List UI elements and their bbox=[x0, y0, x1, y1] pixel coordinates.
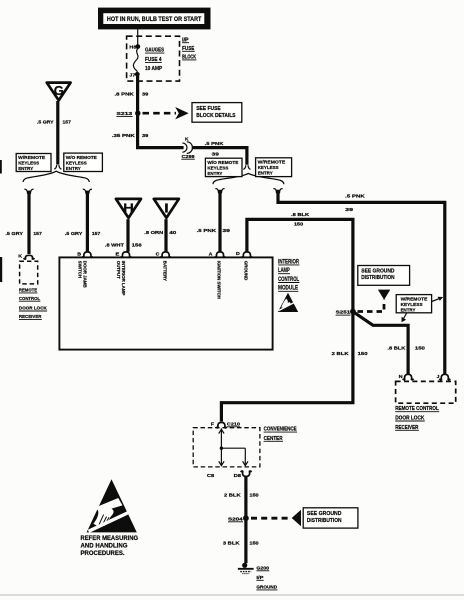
label .5 PNK 39 after C299 bbox=[205, 141, 224, 157]
svg-text:.5 GRY: .5 GRY bbox=[5, 231, 23, 237]
svg-text:157: 157 bbox=[33, 231, 42, 237]
svg-text:39: 39 bbox=[345, 207, 353, 213]
fuse terminal H8 bbox=[129, 44, 140, 50]
svg-text:40: 40 bbox=[169, 230, 176, 236]
wire H to pin E bbox=[126, 219, 129, 252]
wire split right branch to pin J bbox=[278, 190, 445, 374]
splice S213 bbox=[116, 111, 140, 118]
C8 D8 pin labels bbox=[207, 473, 241, 479]
dashed arrow S213 to see fuse box bbox=[143, 107, 189, 119]
pin J cup bbox=[437, 374, 451, 380]
label 3 BLK 150 bbox=[223, 541, 259, 547]
branch flare K bbox=[24, 189, 33, 194]
svg-text:.35 PNK: .35 PNK bbox=[112, 133, 136, 139]
svg-text:.5 GRY: .5 GRY bbox=[37, 119, 54, 125]
dashed box convenience center bbox=[193, 428, 260, 467]
svg-text:2 BLK: 2 BLK bbox=[224, 492, 241, 498]
svg-text:C8: C8 bbox=[207, 473, 215, 479]
pin K cup bbox=[18, 254, 34, 260]
svg-text:DISTRIBUTION: DISTRIBUTION bbox=[307, 518, 342, 524]
label .8 BLK 150 module ground run bbox=[291, 212, 310, 227]
svg-text:BATTERY: BATTERY bbox=[163, 261, 168, 281]
svg-text:HOT IN RUN, BULB TEST OR START: HOT IN RUN, BULB TEST OR START bbox=[107, 16, 201, 23]
svg-text:A: A bbox=[209, 252, 213, 258]
svg-text:BLOCK DETAILS: BLOCK DETAILS bbox=[196, 113, 236, 119]
svg-text:H8: H8 bbox=[129, 45, 137, 51]
svg-text:3 BLK: 3 BLK bbox=[223, 541, 240, 547]
svg-text:DISTRIBUTION: DISTRIBUTION bbox=[361, 275, 394, 281]
svg-text:W/REMOTE: W/REMOTE bbox=[18, 155, 46, 161]
arrowhead at D8 bbox=[243, 461, 248, 465]
svg-text:150: 150 bbox=[415, 345, 425, 351]
label .5 GRY 157 under G bbox=[37, 119, 71, 125]
svg-text:10 AMP: 10 AMP bbox=[145, 66, 162, 72]
svg-text:ENTRY: ENTRY bbox=[18, 166, 34, 172]
svg-text:D8: D8 bbox=[234, 473, 242, 479]
svg-text:KEYLESS: KEYLESS bbox=[401, 302, 424, 308]
W/O REMOTE KEYLESS ENTRY box (left pair) bbox=[64, 153, 103, 172]
svg-text:KEYLESS: KEYLESS bbox=[207, 165, 229, 171]
svg-text:.8 BLK: .8 BLK bbox=[387, 345, 406, 351]
svg-text:H: H bbox=[123, 201, 134, 216]
svg-text:150: 150 bbox=[249, 492, 259, 498]
svg-text:.5 GRY: .5 GRY bbox=[65, 231, 83, 237]
svg-text:SEE GROUND: SEE GROUND bbox=[307, 511, 342, 517]
label .8 ORN 40 bbox=[144, 230, 176, 236]
svg-text:J: J bbox=[437, 374, 440, 380]
dashed box left receiver bbox=[20, 261, 38, 284]
branch flare B bbox=[83, 189, 92, 194]
GAUGES FUSE 4 10 AMP labels bbox=[145, 48, 164, 73]
svg-text:.8 WHT: .8 WHT bbox=[105, 243, 124, 249]
REFER MEASURING AND HANDLING PROCEDURES text bbox=[81, 535, 139, 557]
G200 I/P GROUND label bbox=[256, 565, 277, 590]
banner HOT IN RUN bbox=[98, 8, 211, 30]
ESD warning symbol large bbox=[87, 479, 138, 532]
svg-text:J7: J7 bbox=[129, 72, 136, 78]
connector C299 bbox=[181, 137, 195, 160]
svg-text:K: K bbox=[18, 254, 22, 260]
wire J7 down to corner then right to C299 bbox=[138, 76, 184, 148]
svg-text:SEE GROUND: SEE GROUND bbox=[361, 268, 394, 274]
ground G200 bbox=[238, 563, 254, 574]
left split brace bbox=[23, 171, 89, 182]
ESD symbol small bbox=[278, 293, 298, 312]
label 2 BLK 150 left run bbox=[332, 351, 368, 357]
svg-text:INTERIOR: INTERIOR bbox=[278, 258, 299, 265]
wires inside convenience center bbox=[221, 428, 245, 465]
svg-text:157: 157 bbox=[63, 119, 72, 125]
wire 2 BLK S251 down left to C210 bbox=[221, 313, 353, 421]
svg-text:39: 39 bbox=[222, 228, 230, 234]
REMOTE CONTROL DOOR LOCK RECEIVER label right bbox=[395, 406, 439, 431]
svg-text:KEYLESS: KEYLESS bbox=[66, 160, 88, 166]
svg-text:150: 150 bbox=[294, 221, 304, 227]
label .8 BLK 150 to pin N bbox=[387, 345, 425, 351]
label .8 WHT 156 bbox=[105, 243, 142, 249]
pin A cup bbox=[209, 252, 226, 258]
svg-text:ENTRY: ENTRY bbox=[401, 308, 416, 314]
svg-text:39: 39 bbox=[142, 92, 149, 98]
svg-text:I: I bbox=[164, 201, 169, 216]
wire module pin D ground up right down to S251 bbox=[247, 219, 353, 310]
SEE GROUND DISTRIBUTION box upper bbox=[358, 266, 410, 286]
svg-text:OUTPUT: OUTPUT bbox=[116, 261, 121, 279]
label .35 PNK 39 bbox=[112, 133, 149, 139]
svg-text:KEYLESS: KEYLESS bbox=[18, 161, 40, 167]
arrowhead at C8 bbox=[219, 461, 224, 465]
svg-text:IGNITION SWITCH: IGNITION SWITCH bbox=[217, 261, 222, 299]
bottom hairline bbox=[0, 594, 464, 596]
svg-text:.5 PNK: .5 PNK bbox=[197, 228, 217, 234]
wire D8 to S204 to G200 bbox=[244, 476, 247, 563]
W/REMOTE KEYLESS ENTRY box (left pair) bbox=[16, 154, 51, 173]
wire split to pin A bbox=[218, 190, 221, 252]
CONVENIENCE CENTER label bbox=[264, 427, 298, 442]
svg-text:150: 150 bbox=[249, 541, 259, 547]
pin E label INTERIOR LAMP OUTPUT bbox=[116, 261, 126, 296]
svg-text:W/O REMOTE: W/O REMOTE bbox=[66, 155, 98, 161]
svg-text:C: C bbox=[156, 252, 160, 258]
fuse terminal J7 bbox=[129, 72, 139, 78]
wire C299 to right split bbox=[192, 148, 247, 165]
I/P FUSE BLOCK label bbox=[182, 37, 196, 60]
label .5 PNK 39 pin A branch bbox=[197, 228, 231, 234]
branch flare right of right split bbox=[273, 189, 282, 194]
W/O REMOTE KEYLESS ENTRY box (right pair) bbox=[205, 158, 242, 177]
svg-text:156: 156 bbox=[132, 243, 142, 249]
pin D label GROUND bbox=[243, 261, 248, 281]
svg-text:LAMP: LAMP bbox=[278, 267, 290, 274]
svg-text:ENTRY: ENTRY bbox=[66, 166, 82, 172]
svg-text:.8 PNK: .8 PNK bbox=[115, 92, 135, 98]
svg-text:.5 PNK: .5 PNK bbox=[205, 141, 224, 147]
svg-text:GROUND: GROUND bbox=[243, 261, 248, 281]
dashed box right receiver bbox=[396, 381, 456, 403]
connector C210 cup bbox=[211, 421, 240, 427]
svg-text:.5 PNK: .5 PNK bbox=[345, 194, 365, 200]
pin D cup bbox=[236, 251, 252, 257]
svg-text:KEYLESS: KEYLESS bbox=[258, 165, 280, 171]
svg-text:B: B bbox=[77, 252, 81, 258]
pin E cup bbox=[116, 252, 132, 258]
svg-text:K: K bbox=[185, 137, 189, 143]
triangle G bbox=[47, 83, 71, 101]
branch flare left of right split bbox=[215, 189, 224, 194]
svg-text:AND HANDLING: AND HANDLING bbox=[81, 542, 128, 549]
svg-text:SEE FUSE: SEE FUSE bbox=[196, 106, 221, 112]
svg-text:W/REMOTE: W/REMOTE bbox=[258, 160, 286, 166]
left edge artifact marks bbox=[0, 160, 2, 282]
svg-text:G: G bbox=[54, 83, 64, 98]
svg-text:PROCEDURES.: PROCEDURES. bbox=[81, 550, 125, 557]
pin B label DOOR JAMB SWITCH bbox=[77, 261, 87, 288]
label .8 PNK 39 bbox=[115, 92, 149, 98]
pin B cup bbox=[77, 252, 93, 258]
svg-text:150: 150 bbox=[358, 351, 368, 357]
svg-text:CONTROL: CONTROL bbox=[278, 276, 299, 283]
wire left split to pin K bbox=[27, 191, 30, 254]
right split wire-end flare bbox=[243, 165, 250, 169]
label .5 GRY 157 B branch bbox=[65, 231, 101, 237]
svg-text:W/O REMOTE: W/O REMOTE bbox=[207, 160, 239, 166]
triangle H bbox=[116, 199, 141, 218]
SEE GROUND DISTRIBUTION box lower bbox=[303, 508, 358, 528]
arrow from box to black wire bbox=[402, 313, 407, 322]
pin C label BATTERY bbox=[163, 261, 168, 281]
svg-text:.8 BLK: .8 BLK bbox=[291, 212, 310, 218]
right split brace bbox=[213, 173, 284, 184]
svg-text:D: D bbox=[236, 251, 240, 257]
svg-text:SWITCH: SWITCH bbox=[77, 261, 82, 278]
svg-text:W/REMOTE: W/REMOTE bbox=[401, 296, 429, 302]
pin C cup bbox=[156, 252, 171, 258]
W/REMOTE KEYLESS ENTRY box (right pair) bbox=[256, 158, 292, 177]
svg-text:F: F bbox=[211, 422, 214, 428]
interior lamp control module box bbox=[59, 257, 272, 349]
wire I to pin C bbox=[164, 219, 167, 252]
dashed wire S251 to ground distribution funnel bbox=[358, 290, 391, 312]
svg-text:ENTRY: ENTRY bbox=[258, 171, 274, 177]
dashed wire S204 to funnel bbox=[251, 510, 301, 526]
pin N cup bbox=[399, 374, 414, 380]
W/REMOTE KEYLESS ENTRY box right side bbox=[396, 295, 431, 314]
SEE FUSE BLOCK DETAILS box bbox=[192, 103, 242, 123]
triangle I bbox=[154, 199, 179, 218]
INTERIOR LAMP CONTROL MODULE label bbox=[278, 258, 299, 291]
splice S204 bbox=[228, 515, 249, 522]
arrow from box to pink wire bbox=[432, 297, 444, 302]
splice S251 bbox=[336, 309, 356, 316]
svg-text:REFER MEASURING: REFER MEASURING bbox=[81, 535, 139, 542]
svg-text:MODULE: MODULE bbox=[278, 285, 298, 292]
D8 cup flipped bbox=[241, 471, 252, 476]
wire S251 to pin N bbox=[354, 312, 408, 374]
svg-text:.8 ORN: .8 ORN bbox=[144, 230, 164, 236]
left split wire-end flare bbox=[54, 165, 61, 169]
svg-text:2 BLK: 2 BLK bbox=[332, 351, 350, 357]
wire left split to pin B bbox=[86, 191, 89, 252]
wire G to left split bbox=[56, 101, 59, 165]
svg-text:39: 39 bbox=[142, 133, 149, 139]
junction dot bbox=[220, 447, 223, 450]
svg-text:157: 157 bbox=[92, 231, 101, 237]
svg-text:ENTRY: ENTRY bbox=[207, 171, 223, 177]
arrowhead below C210 bbox=[219, 429, 224, 433]
svg-text:39: 39 bbox=[212, 152, 220, 158]
label .5 PNK 39 right run bbox=[345, 194, 365, 214]
wire banner to fuse H8 bbox=[137, 29, 139, 45]
REMOTE CONTROL DOOR LOCK RECEIVER label left bbox=[19, 288, 47, 321]
pin A label IGNITION SWITCH bbox=[217, 261, 222, 299]
label 2 BLK 150 lower bbox=[224, 492, 259, 498]
label .5 GRY 157 K branch bbox=[5, 231, 42, 237]
fuse F4 squiggle bbox=[133, 49, 138, 73]
svg-text:N: N bbox=[399, 374, 404, 380]
I/P fuse block dashed box bbox=[127, 36, 180, 81]
